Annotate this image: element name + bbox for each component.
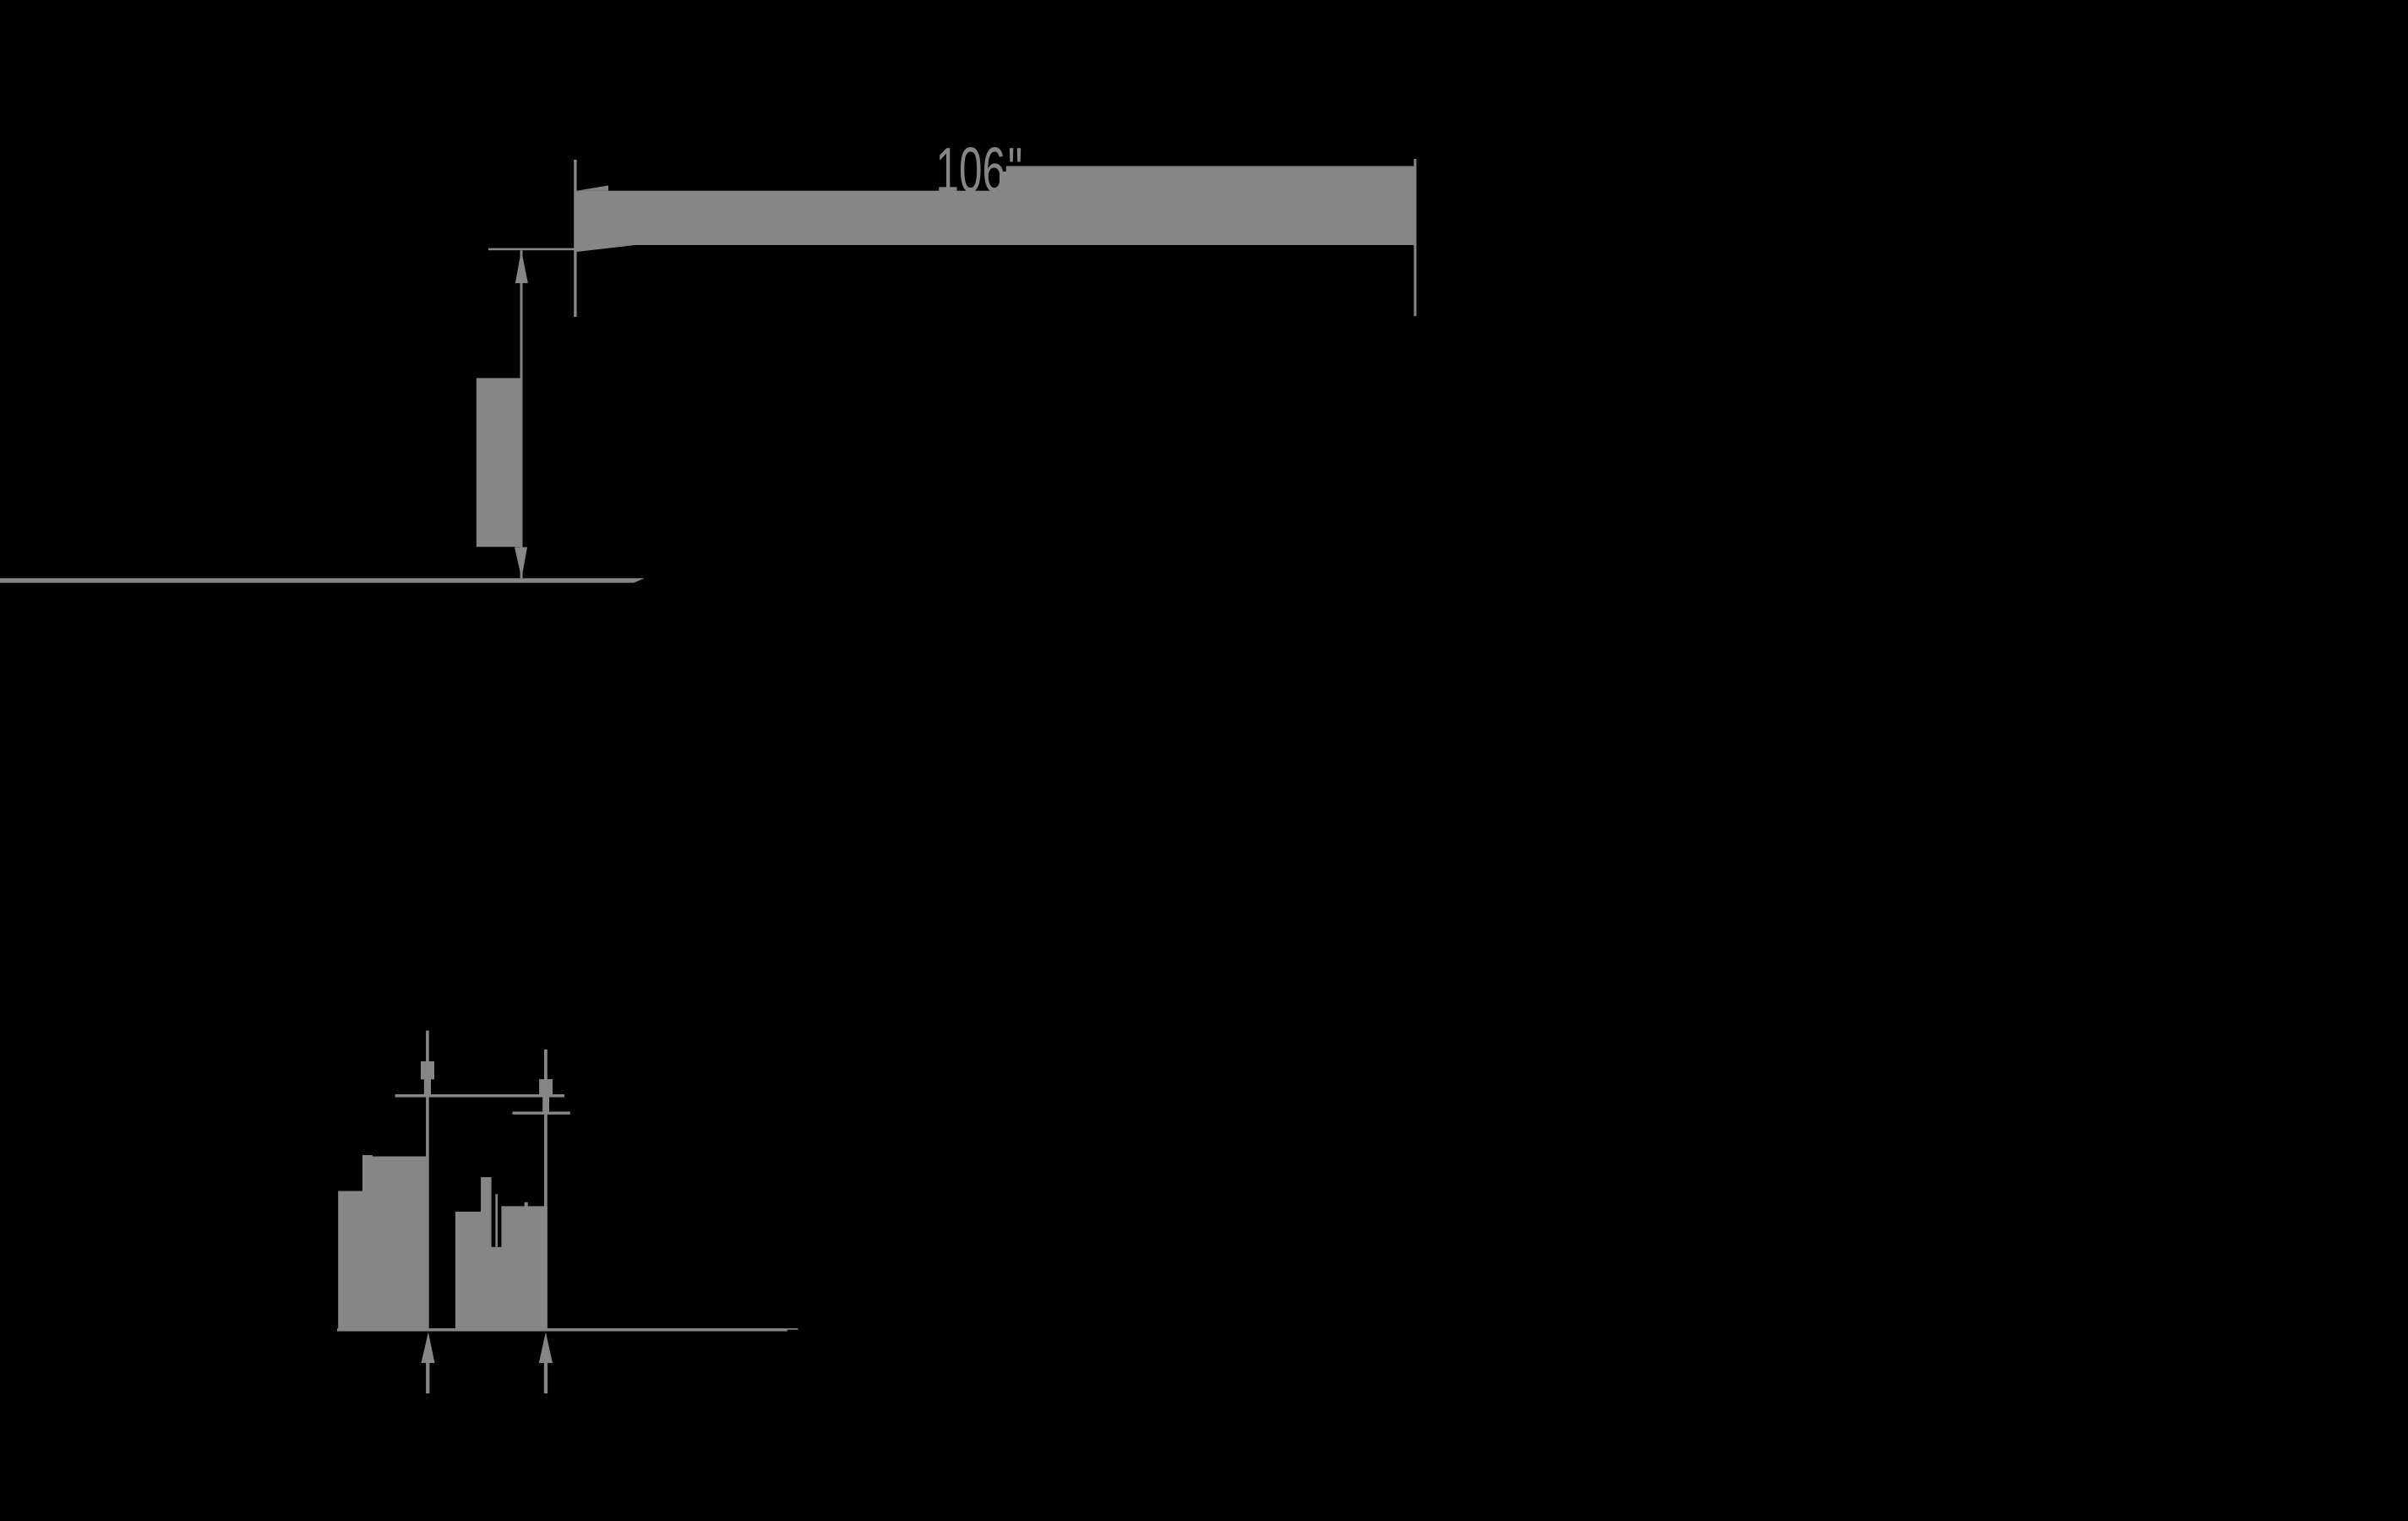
cluster horizontal line 1 (395, 1094, 565, 1098)
box marker A tail (424, 1079, 431, 1094)
cluster ground line thin tail (787, 1328, 798, 1330)
floor line (0, 578, 634, 582)
awning cassette bar right raised section (1006, 166, 1416, 246)
dimension text block (solid) (477, 378, 521, 547)
bar left arrowhead top wedge (577, 186, 608, 191)
right silhouette shape (455, 1177, 548, 1329)
ground arrow A shaft (426, 1363, 429, 1393)
height dimension arrowhead up (515, 250, 528, 283)
thin line inside slot (495, 1194, 498, 1247)
left extension line (574, 160, 576, 317)
awning cassette bar left section (575, 191, 1011, 245)
box marker B tail (542, 1098, 549, 1112)
right extension line (1414, 159, 1416, 316)
height dimension line vertical (520, 250, 523, 578)
cluster dimension line A (426, 1031, 429, 1332)
bar bottom reference line (488, 248, 579, 251)
bar left arrowhead bottom wedge (577, 245, 635, 252)
glyph 6 bowl merge filler (1000, 172, 1007, 192)
dimension label 106 inch (936, 135, 1023, 206)
box marker A (421, 1061, 434, 1079)
ground arrow B shaft (544, 1363, 548, 1393)
floor line tapered end (634, 578, 645, 582)
svg-text:106": 106" (936, 135, 1023, 206)
cluster dimension line B (544, 1049, 548, 1331)
ground arrow A head (422, 1333, 435, 1364)
cluster ground line (337, 1328, 787, 1332)
left silhouette shape (338, 1155, 428, 1329)
ground arrow B head (539, 1333, 553, 1364)
box marker B (539, 1079, 553, 1097)
cluster horizontal line 2 (513, 1112, 570, 1115)
height dimension arrowhead down (515, 548, 527, 579)
